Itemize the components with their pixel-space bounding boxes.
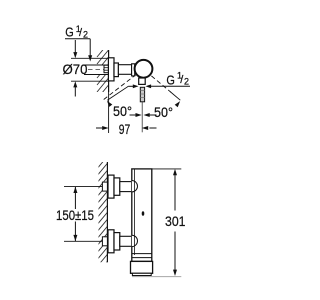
svg-text:2: 2 xyxy=(184,77,189,87)
svg-text:G: G xyxy=(166,72,175,87)
svg-text:50°: 50° xyxy=(113,103,132,119)
svg-text:Ø70: Ø70 xyxy=(63,61,88,77)
svg-text:G: G xyxy=(65,25,74,40)
svg-text:150±15: 150±15 xyxy=(56,207,94,223)
svg-text:301: 301 xyxy=(165,213,186,229)
svg-text:97: 97 xyxy=(119,121,131,137)
svg-text:50°: 50° xyxy=(154,104,173,120)
svg-text:2: 2 xyxy=(83,30,88,40)
